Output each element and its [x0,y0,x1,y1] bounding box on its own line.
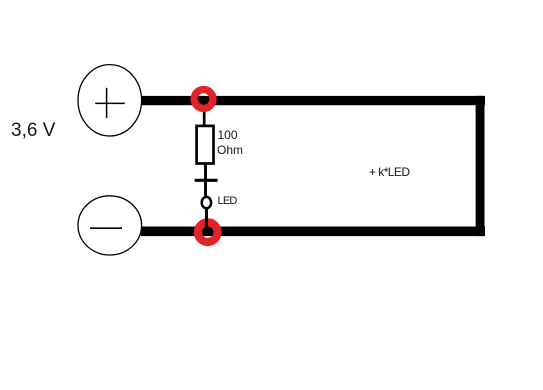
wire top (from + terminal to right side) [141,96,485,105]
svg-text:100: 100 [218,128,238,142]
voltage source positive terminal (circle with plus) [78,65,142,136]
LED cathode bar [195,179,218,182]
wire lead from resistor R1 down to LED bar [204,162,207,198]
resistor R1 body (rectangle) [197,126,214,164]
svg-text:+ k*LED: + k*LED [369,165,410,179]
LED circle symbol [202,197,211,208]
wire lead from node A down to resistor R1 [203,100,206,127]
voltage source negative terminal (circle with minus) [78,196,142,255]
wire right vertical [476,96,485,236]
wire bottom (from - terminal to right side) [141,227,485,237]
svg-text:LED: LED [218,195,238,207]
svg-text:Ohm: Ohm [217,143,243,157]
svg-text:3,6 V: 3,6 V [11,120,56,141]
wire lead from LED circle down into node B [205,207,208,228]
node B (bottom junction, red ring) [198,222,218,242]
node A (top junction, red ring) [194,90,213,109]
